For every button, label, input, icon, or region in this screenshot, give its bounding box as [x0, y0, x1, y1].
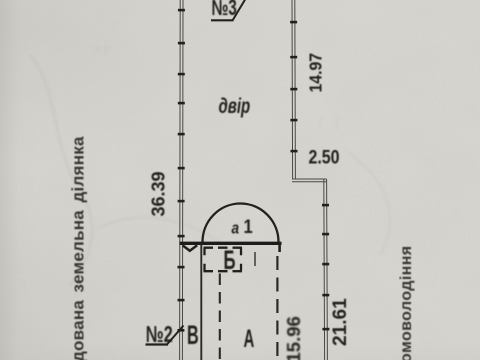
svg-text:дована земельна ділянка: дована земельна ділянка	[69, 136, 88, 360]
svg-text:двір: двір	[219, 93, 251, 117]
fence: right lower double line	[324, 179, 328, 360]
svg-text:г т: г т	[318, 110, 342, 135]
svg-text:№2: №2	[146, 322, 173, 347]
svg-text:Б: Б	[224, 245, 236, 275]
svg-text:А: А	[244, 325, 255, 353]
underline N2	[146, 343, 169, 345]
fence: right upper double line	[292, 0, 295, 180]
svg-text:14.97: 14.97	[306, 53, 326, 93]
building: bold top wall	[180, 242, 282, 245]
svg-text:№3: №3	[212, 0, 237, 21]
fence: horizontal jog 2.50	[292, 179, 327, 182]
underline N3	[211, 19, 234, 21]
svg-text:к р: к р	[95, 41, 111, 55]
fence: left boundary double line	[180, 0, 183, 360]
svg-text:В: В	[187, 320, 199, 350]
faint bleed-through ghost curve top-left	[30, 41, 390, 285]
dashed partition below B	[219, 274, 221, 360]
svg-text:2.50: 2.50	[309, 146, 340, 168]
fence right lower: tick marks	[322, 204, 329, 331]
fence right upper: tick marks	[290, 21, 297, 153]
svg-text:15.96: 15.96	[283, 316, 304, 360]
building: right dashed wall	[276, 256, 278, 360]
fence left: tick marks	[177, 9, 185, 332]
porch a1: arc	[203, 204, 279, 243]
survey V marker	[183, 245, 198, 251]
building: right wall corner stub	[278, 243, 281, 252]
shed B: dashed rectangle	[204, 248, 243, 272]
svg-text:1: 1	[244, 216, 253, 238]
svg-text:36.39: 36.39	[149, 171, 169, 216]
leader line for N2	[167, 326, 184, 346]
small dash stub right of B	[254, 252, 256, 266]
svg-text:омоволодіння: омоволодіння	[398, 245, 415, 360]
svg-text:21.61: 21.61	[330, 298, 351, 346]
svg-text:а: а	[232, 219, 240, 238]
building: left solid wall	[200, 245, 202, 360]
leader line for N3	[233, 0, 247, 21]
